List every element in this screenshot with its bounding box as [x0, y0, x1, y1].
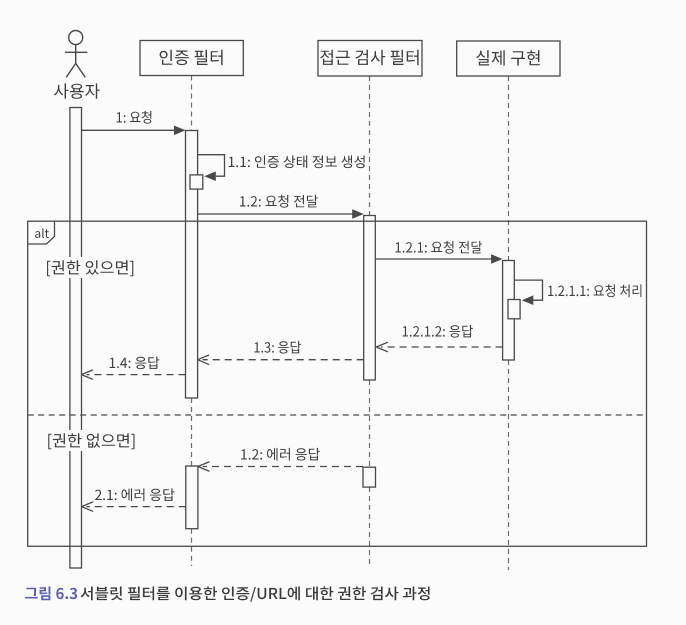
header label 실제 구현: [476, 50, 540, 65]
header box 인증 필터: [140, 41, 243, 76]
message 1.1 label 인증 상태 정보 생성: [229, 155, 365, 168]
message 1: 요청 line: [82, 126, 186, 136]
lifeline 접근 검사 필터: [369, 76, 371, 566]
guard [권한 없으면]: [43, 430, 138, 451]
message 1.4 label: [110, 356, 159, 369]
alt label pentagon: [28, 221, 55, 244]
self message 1.2.1.1 loop: [514, 280, 542, 300]
activation bar 사용자: [70, 108, 82, 569]
message 1.2: 요청 전달 line: [198, 209, 364, 219]
message 1: 요청 label: [117, 111, 152, 124]
activation bar 실제 구현: [503, 261, 515, 361]
message 1.2: 에러 응답 dashed: [198, 462, 363, 471]
actor 사용자 stick figure: [65, 31, 87, 78]
alt frame: [28, 221, 647, 546]
header label 접근 검사 필터: [320, 50, 418, 65]
actor label 사용자: [54, 83, 100, 98]
activation rect 접근 검사 필터 (2): [363, 467, 376, 487]
self message 1.1 loop: [198, 155, 225, 177]
activation bar 접근 검사 필터: [364, 216, 376, 381]
caption 그림 6.3: [25, 586, 77, 600]
self message 1.1 arrowhead: [204, 171, 216, 181]
message 1.2.1.2: 응답 dashed: [376, 342, 502, 351]
header box 접근 검사 필터: [318, 41, 422, 77]
alt label text: [35, 228, 49, 238]
message 1.2 에러 label: [241, 448, 320, 461]
message 1.2.1: 요청 전달 line: [375, 254, 502, 264]
header label 인증 필터: [160, 50, 223, 65]
activation bar 인증 필터 (1): [186, 131, 198, 399]
self message 1.2.1.1 arrowhead: [522, 295, 534, 305]
lifeline 인증 필터: [191, 76, 193, 567]
lifeline 실제 구현: [508, 76, 510, 570]
activation bar 인증 필터 (2): [186, 466, 198, 529]
message 2.1: 에러 응답 dashed: [82, 502, 186, 511]
caption title text: [81, 587, 430, 602]
message 1.3 label: [254, 341, 300, 354]
message 1.2 label: [240, 195, 318, 208]
self message 1.1 activation square: [190, 175, 203, 189]
guard [권한 있으면]: [42, 257, 137, 278]
message 1.2.1 label: [396, 241, 483, 254]
message 1.3: 응답 dashed: [198, 355, 364, 364]
message 2.1 label: [95, 488, 174, 501]
message 1.4: 응답 dashed: [82, 370, 186, 379]
message 1.2.1.2 label: [403, 325, 473, 338]
alt divider dashed: [28, 414, 647, 416]
self message 1.2.1.1 activation square: [508, 300, 520, 319]
message 1.2.1.1 label 요청 처리: [548, 284, 641, 297]
header box 실제 구현: [457, 41, 560, 76]
